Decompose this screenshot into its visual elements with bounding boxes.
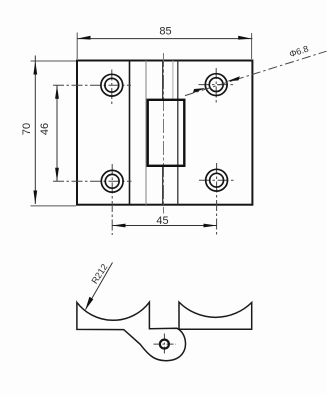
svg-text:45: 45 (156, 215, 168, 227)
hole top-left (101, 74, 123, 96)
left leaf inner edge (129, 61, 131, 205)
pin edge dark segment below knuckle (162, 166, 164, 205)
pin edge line (upper) (172, 61, 174, 100)
hole bottom-left (101, 170, 123, 192)
dimension 45 arrow left (112, 224, 125, 228)
hole bottom-left centerlines (53, 180, 132, 182)
knuckle tube left edge (145, 61, 147, 205)
dimension 46 line (56, 85, 58, 181)
leader R212 arrow (85, 297, 93, 310)
knuckle middle segment rectangle (148, 100, 185, 166)
svg-text:85: 85 (159, 25, 171, 37)
svg-text:70: 70 (21, 123, 33, 135)
svg-text:Φ6.8: Φ6.8 (288, 44, 310, 60)
hole top-right centerlines (199, 84, 235, 86)
profile view: right leaf (179, 302, 252, 329)
dimension 70 arrow bottom (33, 191, 37, 205)
dimension 85 arrow left (77, 36, 90, 40)
hole bottom-right centerlines (199, 179, 235, 181)
pin hole in tab centerlines (154, 343, 177, 345)
dimension 70 line (34, 56, 36, 205)
dimension 45 line (112, 225, 217, 227)
dimension 85 extension lines (76, 33, 78, 60)
dimension 46 arrow bottom (55, 168, 59, 182)
leader line R212 (86, 263, 113, 310)
leader arrow right of hole (227, 76, 240, 81)
right leaf inner edge (177, 61, 179, 205)
pin hole in tab (160, 340, 169, 349)
profile view: left leaf with curled tab (77, 302, 186, 361)
hinge pin centerline (163, 53, 165, 214)
dimension 70 extension lines (31, 60, 77, 62)
leader line diameter 6.8 (185, 51, 327, 95)
dimension 70 arrow top (33, 61, 37, 75)
pin edge dark segment above knuckle (162, 61, 164, 100)
hole top-left centerlines (53, 84, 131, 86)
svg-text:46: 46 (39, 123, 51, 135)
dimension 85 line (77, 38, 252, 40)
dimension 45 arrow right (204, 224, 217, 228)
dimension 46 arrow top (55, 85, 59, 99)
leader arrow left of hole (193, 88, 206, 93)
hole top-right (205, 74, 227, 96)
dimension 85 arrow right (238, 36, 251, 40)
hole bottom-right (206, 169, 228, 191)
hinge plate outline (top view) (77, 61, 252, 205)
